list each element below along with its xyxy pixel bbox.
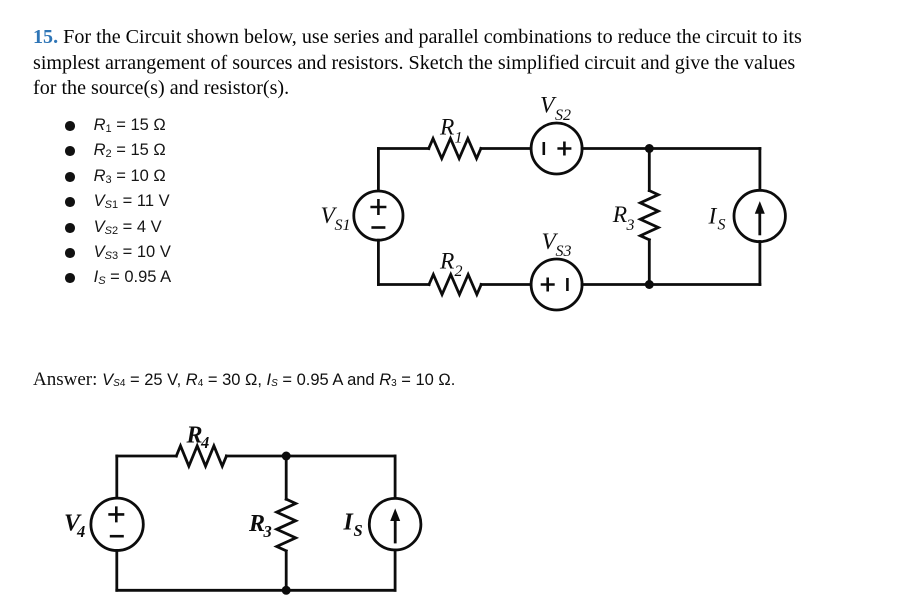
svg-text:4: 4: [76, 522, 85, 541]
svg-text:3: 3: [263, 522, 272, 541]
svg-text:R: R: [439, 115, 454, 141]
svg-text:R: R: [186, 422, 203, 448]
svg-text:S: S: [354, 521, 363, 540]
svg-text:R: R: [248, 511, 265, 537]
svg-text:R: R: [439, 249, 454, 275]
svg-text:S1: S1: [335, 217, 351, 234]
svg-text:2: 2: [455, 263, 463, 280]
svg-text:4: 4: [200, 433, 209, 452]
svg-text:R: R: [612, 202, 627, 228]
svg-text:S2: S2: [555, 107, 571, 124]
svg-text:1: 1: [455, 130, 463, 147]
svg-text:3: 3: [626, 217, 635, 234]
svg-text:I: I: [708, 204, 718, 230]
svg-text:S: S: [718, 217, 726, 234]
svg-text:S3: S3: [556, 243, 572, 260]
